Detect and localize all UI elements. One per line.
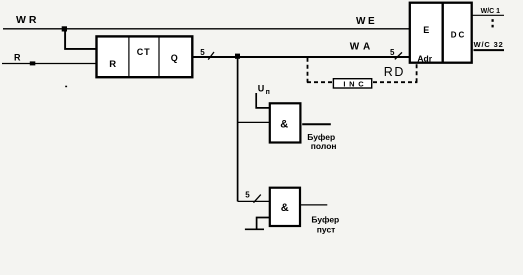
AND gate D2 (270, 188, 300, 226)
svg-text:W/C 32: W/C 32 (474, 40, 504, 49)
gate D2 output wire (301, 204, 328, 206)
junction on WR wire (62, 26, 67, 31)
dashed RD wire: WA tap down (307, 58, 309, 83)
ellipsis between outputs (492, 19, 494, 22)
svg-text:DC: DC (451, 30, 467, 39)
svg-text:5: 5 (390, 48, 395, 57)
svg-text:Буфер: Буфер (311, 215, 339, 225)
svg-text:RD: RD (384, 65, 405, 79)
svg-text:WE: WE (356, 16, 377, 27)
svg-text:CT: CT (137, 47, 151, 57)
bus slash (gate D2 input) (254, 195, 261, 203)
dashed RD wire: up to decoder Adr bottom (416, 64, 418, 82)
decoder divider (442, 3, 444, 63)
wire WR junction to counter C input (65, 29, 96, 49)
dashed RD wire: INC to decoder (373, 81, 417, 83)
bus slash (counter output) (208, 52, 214, 60)
svg-text:п: п (266, 89, 270, 96)
svg-text:&: & (280, 119, 288, 131)
wire to gate D2 input (238, 200, 270, 202)
counter CT block (97, 36, 193, 77)
dashed RD wire: left horizontal to INC (307, 81, 333, 83)
output wire W/C 1 (472, 14, 504, 16)
svg-text:пуст: пуст (317, 224, 336, 234)
svg-text:R: R (14, 53, 21, 63)
wire WR/WE (top horizontal) (3, 28, 410, 30)
svg-text:WA: WA (350, 41, 375, 52)
AND gate D1 (270, 103, 301, 142)
svg-text:E: E (423, 25, 429, 35)
svg-text:Q: Q (171, 53, 178, 63)
wire junction line to gate D1 input (238, 121, 270, 123)
junction dot on R wire (30, 61, 36, 65)
svg-text:5: 5 (200, 48, 205, 57)
junction on WA bus (235, 54, 240, 59)
bus wire WA: counter Q to decoder Adr (192, 56, 409, 58)
svg-text:Adr: Adr (417, 53, 432, 63)
svg-text:INC: INC (343, 79, 367, 88)
svg-text:WR: WR (16, 14, 40, 26)
counter divider 2 (158, 36, 160, 77)
wire Un to gate D1 (256, 93, 269, 108)
svg-text:&: & (281, 202, 289, 214)
wire R (2, 63, 96, 65)
constant-0 input to gate D2 (257, 218, 270, 229)
svg-text:W/C 1: W/C 1 (481, 8, 501, 15)
counter divider 1 (128, 36, 130, 77)
wire junction down to gates (237, 56, 239, 201)
output wire W/C 32 (474, 49, 505, 51)
bus slash (decoder input) (395, 52, 402, 59)
svg-text:5: 5 (245, 191, 250, 200)
stray mark (65, 86, 67, 88)
svg-text:R: R (109, 59, 116, 70)
constant-0 bar (245, 228, 264, 230)
decoder block E/DC (410, 3, 472, 63)
svg-text:U: U (258, 84, 265, 94)
INC box (333, 79, 371, 88)
gate D1 output wire (302, 123, 331, 125)
svg-text:полон: полон (311, 141, 337, 151)
